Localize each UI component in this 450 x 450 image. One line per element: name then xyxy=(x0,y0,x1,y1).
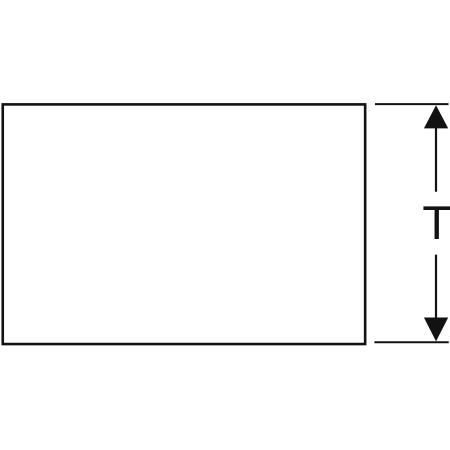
dimension line lower segment xyxy=(435,255,437,319)
panel outline rectangle xyxy=(3,104,365,344)
top extension line xyxy=(375,103,449,105)
bottom extension line xyxy=(374,341,448,343)
dimension arrowhead up xyxy=(424,105,448,128)
dimension line upper segment xyxy=(435,128,437,192)
svg-text:T: T xyxy=(422,196,450,249)
dimension arrowhead down xyxy=(424,318,448,342)
